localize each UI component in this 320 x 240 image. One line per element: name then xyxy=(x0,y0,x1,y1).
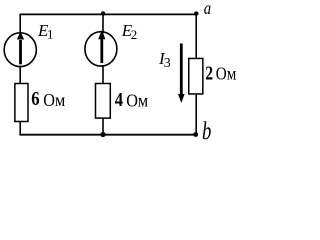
node a dot xyxy=(194,11,198,15)
svg-text:Ом: Ом xyxy=(43,90,65,110)
svg-text:2: 2 xyxy=(131,27,138,42)
svg-text:6: 6 xyxy=(31,88,39,110)
wire right branch lower xyxy=(195,94,197,135)
wire left branch lower xyxy=(19,122,21,136)
wire middle branch upper xyxy=(102,14,104,34)
svg-text:2: 2 xyxy=(205,62,213,84)
svg-text:4: 4 xyxy=(115,89,123,111)
wire left branch upper xyxy=(19,14,21,35)
label I3 xyxy=(158,49,171,71)
source E2 circle xyxy=(85,32,117,66)
wire bottom horizontal xyxy=(20,134,197,136)
current arrow I3 xyxy=(178,44,185,104)
source E1 arrow xyxy=(17,32,24,65)
label R1 value 6 Ом xyxy=(31,88,65,110)
wire middle branch middle xyxy=(102,65,104,84)
resistor R3 box xyxy=(189,58,203,93)
wire top horizontal xyxy=(20,13,197,15)
source E2 arrow xyxy=(98,30,105,63)
svg-text:b: b xyxy=(202,116,211,144)
wire right branch upper xyxy=(195,14,197,59)
label R3 value 2 Ом xyxy=(205,62,237,84)
wire middle branch lower xyxy=(102,118,104,136)
resistor R1 box xyxy=(15,84,28,122)
label E2 xyxy=(121,21,138,42)
resistor R2 box xyxy=(96,84,111,119)
label R2 value 4 Ом xyxy=(115,89,149,111)
junction dot top middle xyxy=(101,11,105,15)
junction dot bottom middle xyxy=(100,132,105,137)
node b dot xyxy=(193,132,198,137)
source E1 circle xyxy=(4,33,36,67)
svg-text:a: a xyxy=(204,0,211,18)
svg-text:Ом: Ом xyxy=(216,63,237,84)
label E1 xyxy=(37,21,54,41)
wire left branch middle xyxy=(19,66,21,85)
svg-text:1: 1 xyxy=(47,27,54,42)
svg-text:Ом: Ом xyxy=(126,91,148,111)
svg-text:3: 3 xyxy=(164,56,171,71)
